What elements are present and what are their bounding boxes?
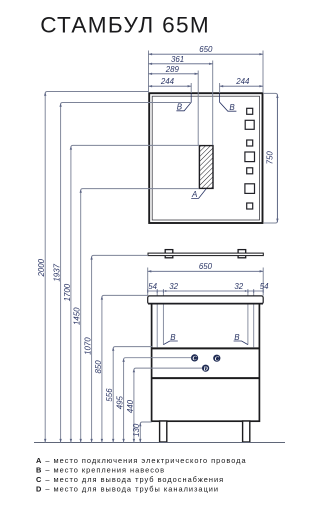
mirror decor squares	[245, 108, 255, 209]
svg-text:54: 54	[148, 282, 157, 291]
svg-text:54: 54	[260, 282, 269, 291]
svg-text:850: 850	[94, 360, 103, 374]
dimension 1937	[53, 103, 192, 443]
dimension 556	[105, 347, 152, 443]
svg-text:244: 244	[235, 77, 250, 86]
dimension 244 left	[149, 77, 192, 87]
svg-text:СТАМБУЛ 65М: СТАМБУЛ 65М	[40, 13, 210, 38]
dimension 750	[264, 93, 279, 223]
cabinet inner lines	[157, 291, 254, 347]
mount B right (cabinet)	[234, 333, 248, 345]
svg-text:289: 289	[165, 65, 180, 74]
dimension 440	[126, 368, 202, 442]
svg-text:650: 650	[199, 45, 213, 54]
svg-text:244: 244	[160, 77, 175, 86]
svg-text:1070: 1070	[84, 337, 93, 355]
extension lines mirror top	[149, 51, 264, 146]
node C2 water supply	[213, 355, 220, 363]
dimension 54/32 row	[148, 282, 269, 293]
svg-text:556: 556	[105, 388, 114, 402]
floor line	[34, 442, 285, 444]
svg-text:1700: 1700	[63, 283, 72, 301]
washbasin rim	[148, 296, 264, 304]
mount B right (mirror)	[220, 94, 237, 113]
svg-text:В: В	[234, 333, 240, 342]
dimension 361	[149, 55, 213, 65]
svg-text:650: 650	[199, 262, 213, 271]
dimension 1450	[73, 189, 200, 443]
svg-text:32: 32	[169, 282, 178, 291]
node D drain	[202, 365, 209, 373]
svg-text:А: А	[191, 190, 197, 199]
dimension 650 cabinet	[148, 262, 264, 272]
legend	[36, 456, 247, 494]
svg-text:750: 750	[266, 151, 275, 165]
light fixture bar	[148, 253, 263, 256]
leg left	[160, 421, 167, 442]
svg-text:В: В	[229, 103, 235, 112]
svg-text:В: В	[170, 333, 176, 342]
dimension 495	[116, 358, 192, 443]
svg-text:В: В	[177, 103, 183, 112]
dimension 2000	[37, 92, 149, 443]
mount B left (mirror)	[176, 94, 191, 112]
extension lines cabinet top	[148, 268, 264, 296]
svg-text:2000: 2000	[37, 258, 46, 277]
svg-text:D – место для вывода трубы кан: D – место для вывода трубы канализации	[36, 485, 219, 494]
svg-text:1450: 1450	[73, 307, 82, 325]
dimension 130	[132, 422, 151, 443]
cabinet body	[152, 300, 260, 421]
cabinet divider 2	[152, 377, 259, 379]
dimension 650 mirror	[149, 45, 264, 55]
mount B left (cabinet)	[163, 333, 177, 345]
svg-text:А – место подключения электрич: А – место подключения электрического про…	[36, 456, 247, 465]
dimension 244 right	[220, 77, 263, 87]
svg-text:В – место крепления навесов: В – место крепления навесов	[36, 466, 165, 475]
cabinet divider 1	[152, 347, 259, 349]
dimension 1700	[63, 145, 199, 442]
dimension 1070	[84, 255, 149, 442]
title	[40, 13, 210, 38]
node C1 water supply	[191, 354, 198, 362]
svg-text:D: D	[202, 365, 208, 372]
svg-text:361: 361	[171, 55, 184, 64]
svg-text:130: 130	[132, 423, 141, 437]
dimension 850	[94, 295, 148, 442]
label A leader	[191, 189, 206, 199]
leg right	[243, 421, 250, 442]
svg-text:32: 32	[234, 282, 243, 291]
svg-text:1937: 1937	[53, 263, 62, 281]
mirror outline	[149, 93, 262, 223]
svg-text:440: 440	[126, 399, 135, 413]
svg-text:495: 495	[116, 396, 125, 410]
light fixture clips	[165, 250, 246, 258]
dimension 289	[149, 65, 199, 75]
hatched area A (electrical)	[199, 146, 213, 189]
svg-text:С – место для вывода труб водо: С – место для вывода труб водоснабжения	[36, 475, 224, 484]
